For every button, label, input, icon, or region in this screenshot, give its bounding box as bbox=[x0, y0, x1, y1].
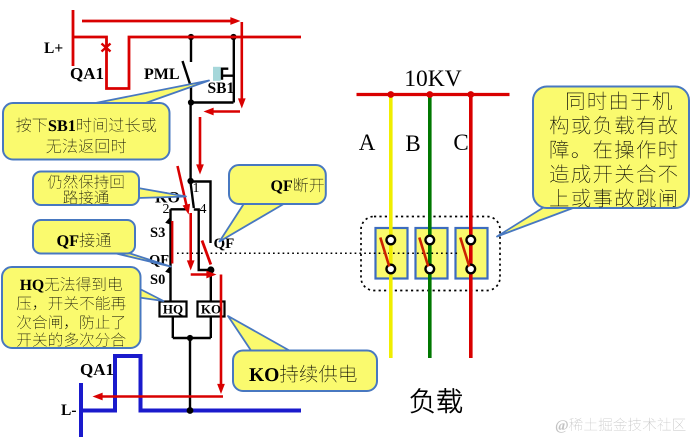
pole B open blade bbox=[419, 238, 428, 267]
bus tap dot bbox=[467, 91, 474, 98]
red highlight on left chain bbox=[171, 221, 173, 264]
callout QF-opened: tail bbox=[220, 202, 288, 242]
junction dot below QF bbox=[207, 266, 214, 273]
red top bus y21 bbox=[82, 20, 234, 23]
callout text line1 bbox=[16, 118, 156, 133]
red flow along L- bbox=[98, 395, 223, 398]
switch unit QF pole C bbox=[456, 228, 488, 279]
arrow left along L- bbox=[93, 393, 103, 401]
arrow down terminal4 branch bbox=[187, 260, 195, 270]
red flow across KO contact bbox=[178, 166, 188, 209]
red flow right below QF bbox=[191, 273, 211, 276]
coil HQ bottom lead bbox=[172, 317, 174, 339]
contact S3 wedge bbox=[165, 217, 170, 225]
dashed switch enclosure box bbox=[361, 217, 500, 291]
QA1 supply waveform with dip bbox=[73, 37, 301, 89]
wire main vertical to KO contact bbox=[189, 103, 191, 182]
phase B green line bbox=[428, 95, 432, 359]
callout text line4 bbox=[17, 332, 125, 346]
callout still-holding-circuit: tail bbox=[138, 188, 186, 198]
bus tap dot bbox=[426, 91, 433, 98]
svg-text:2: 2 bbox=[163, 202, 170, 217]
pole A bottom contact bbox=[387, 265, 396, 274]
callout still-holding-circuit: box bbox=[33, 172, 139, 206]
callout text line1 bbox=[48, 175, 124, 189]
callout text bbox=[271, 178, 324, 194]
arrow down right of SB1 bbox=[238, 98, 246, 108]
L+ feeder vertical bbox=[72, 10, 75, 66]
callout mechanism-fault: tail bbox=[497, 207, 577, 237]
node dot top SB1 bbox=[230, 34, 236, 40]
callout text line2 bbox=[17, 296, 126, 310]
contact PML: blade bbox=[183, 61, 191, 84]
svg-text:10KV: 10KV bbox=[404, 66, 461, 92]
coil KO bottom lead bbox=[210, 317, 212, 339]
pushbutton SB1: plate and prongs bbox=[222, 68, 234, 80]
callout text line5 bbox=[550, 189, 676, 208]
contact S0 wedge bbox=[165, 266, 170, 274]
contact PML: top stub bbox=[190, 37, 192, 62]
L- bus with QA1 pulse waveform bbox=[81, 356, 301, 411]
svg-text:SB1: SB1 bbox=[208, 80, 235, 97]
10KV bus bbox=[357, 93, 510, 96]
fault X mark on QA1 bbox=[102, 44, 111, 52]
callout text line1 bbox=[567, 92, 672, 111]
arrow left into SB1 node bbox=[204, 108, 214, 116]
red flow mid vertical bbox=[199, 117, 202, 169]
junction dot coil bottoms bbox=[187, 335, 193, 341]
coil KO box bbox=[198, 302, 225, 317]
svg-text:S0: S0 bbox=[150, 272, 165, 288]
contact KO: blade 1-4 bbox=[191, 183, 194, 208]
pole C top contact bbox=[467, 236, 476, 245]
wire left chain S3-QF-S0 bbox=[169, 209, 171, 302]
node dot top PML bbox=[188, 34, 194, 40]
callout text bbox=[249, 365, 356, 383]
svg-text:C: C bbox=[453, 130, 468, 155]
callout text line2 bbox=[47, 139, 126, 154]
callout text line1 bbox=[20, 277, 122, 293]
contact QF main blade (red) bbox=[202, 241, 211, 265]
red path down right of SB1 bbox=[241, 22, 244, 102]
svg-text:HQ: HQ bbox=[163, 302, 183, 317]
red path toward SB1 bottom node bbox=[209, 110, 240, 113]
callout HQ-no-voltage: tail bbox=[139, 289, 164, 302]
label load 负载 bbox=[411, 389, 462, 413]
arrow right below QF bbox=[206, 271, 216, 279]
contact KO: terminal 2 stub bbox=[171, 208, 188, 210]
svg-text:L-: L- bbox=[61, 402, 77, 419]
svg-text:S3: S3 bbox=[150, 225, 165, 241]
arrow down mid vertical bbox=[196, 164, 204, 174]
wire joining coil bottoms bbox=[173, 337, 211, 339]
wire node1 right jog to QF bbox=[191, 182, 211, 244]
callout text line3 bbox=[17, 315, 124, 329]
callout text line4 bbox=[550, 164, 677, 183]
contact PML: bottom stub bbox=[190, 83, 192, 103]
pole C open blade bbox=[460, 238, 469, 267]
arrow down beside KO coil bbox=[217, 384, 225, 394]
callout KO-keeps-supplying: tail bbox=[228, 316, 292, 352]
contact KO: terminal 4 link bbox=[194, 210, 211, 271]
callout mechanism-fault: box bbox=[533, 87, 689, 209]
coil HQ box bbox=[160, 302, 187, 317]
pole C bottom contact bbox=[467, 265, 476, 274]
arrow down across KO bbox=[183, 204, 193, 216]
switch unit QF pole A bbox=[376, 228, 408, 279]
callout QF-closed: box bbox=[33, 220, 135, 254]
watermark bbox=[556, 418, 686, 433]
svg-text:B: B bbox=[405, 131, 420, 156]
svg-text:QA1: QA1 bbox=[80, 360, 114, 379]
callout QF-closed: tail bbox=[112, 253, 171, 267]
callout QF-opened: box bbox=[229, 165, 326, 204]
arrow right end of top bus bbox=[230, 17, 240, 25]
callout text line2 bbox=[64, 190, 109, 204]
svg-text:QA1: QA1 bbox=[70, 64, 104, 83]
mechanical linkage dotted line bbox=[177, 252, 460, 254]
pushbutton SB1: main wire bbox=[233, 37, 235, 103]
bus tap dot bbox=[387, 91, 394, 98]
phase A yellow line bbox=[389, 95, 393, 359]
wire down to L- bus bbox=[189, 338, 191, 411]
callout SB1-pressed-too-long: box bbox=[3, 103, 170, 160]
wire joining PML/SB1 bottoms bbox=[191, 101, 234, 103]
callout text bbox=[57, 233, 111, 249]
svg-text:1: 1 bbox=[193, 181, 200, 196]
phase C red line bbox=[469, 95, 473, 359]
pole B top contact bbox=[426, 236, 435, 245]
svg-text:A: A bbox=[359, 130, 376, 155]
svg-text:4: 4 bbox=[200, 202, 207, 217]
svg-text:L+: L+ bbox=[44, 40, 63, 57]
red flow down terminal4 branch bbox=[189, 213, 192, 265]
callout text line3 bbox=[551, 140, 678, 159]
pushbutton SB1: cyan actuator pad bbox=[213, 67, 221, 81]
pole A open blade bbox=[380, 238, 389, 267]
L- terminal stub bbox=[79, 383, 83, 437]
pole A top contact bbox=[387, 236, 396, 245]
junction dot on L- bus bbox=[187, 407, 194, 414]
node dot below PML bbox=[188, 99, 194, 105]
switch unit QF pole B bbox=[416, 228, 448, 279]
svg-text:PML: PML bbox=[144, 66, 180, 83]
callout HQ-no-voltage: box bbox=[2, 267, 141, 348]
svg-text:KO: KO bbox=[201, 302, 221, 317]
callout text line2 bbox=[550, 116, 677, 135]
pole B bottom contact bbox=[426, 265, 435, 274]
callout SB1-pressed-too-long: tail bbox=[88, 81, 209, 106]
node 1 dot of KO contact bbox=[187, 178, 193, 184]
wire down to KO coil bbox=[210, 270, 212, 302]
red flow down beside KO coil bbox=[220, 275, 223, 389]
callout KO-keeps-supplying: box bbox=[233, 351, 377, 392]
